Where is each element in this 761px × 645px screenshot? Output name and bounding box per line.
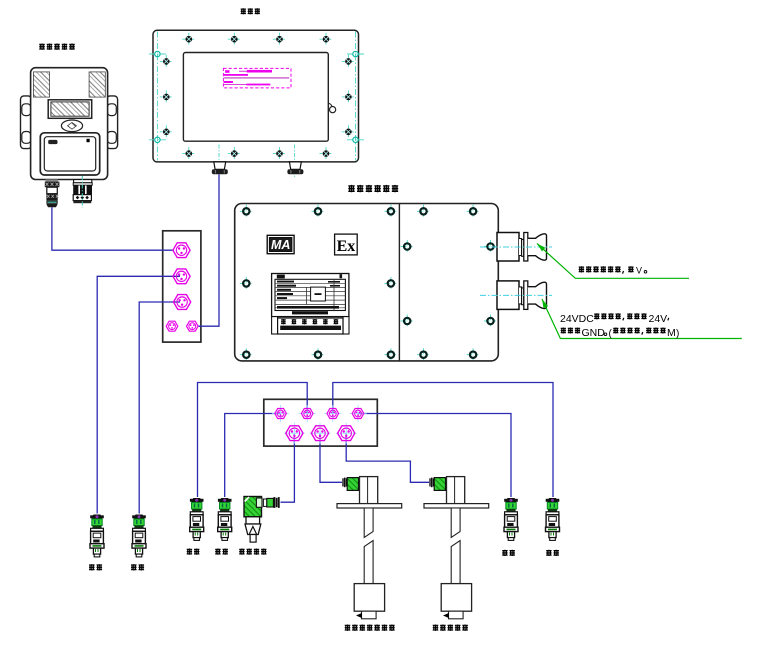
wire junction box bottom port b2 to 废气处理箱水位 sensor xyxy=(320,433,342,482)
label 转速 xyxy=(131,564,144,570)
wire methane sensor to junction box left port 1 xyxy=(52,207,174,250)
host bolts xyxy=(240,205,497,361)
hatched corner patch right xyxy=(89,72,105,97)
wire junction box bottom port b1 to 机油压力 sensor xyxy=(281,433,295,502)
sensor 水温 (water temperature) xyxy=(504,498,518,540)
junction box bottom port t3 xyxy=(324,405,341,422)
display bolts xyxy=(160,33,355,160)
annotation text 停机输出信号，接V。 xyxy=(579,266,647,276)
label 柴油箱油位 xyxy=(433,624,468,630)
label 采集装置主机 xyxy=(348,185,398,192)
wire junction box bottom port t1 to 表温 sensor xyxy=(225,414,281,498)
host name plate xyxy=(272,274,349,317)
label 显示屏 xyxy=(241,8,260,14)
label 水温 xyxy=(502,550,515,556)
sensor 转速 (engine speed) xyxy=(132,515,146,557)
methane sensor cable gland xyxy=(45,179,60,207)
wire junction box bottom port t2 to 排温 sensor xyxy=(198,383,308,498)
svg-text:M: M xyxy=(667,327,676,339)
junction box bottom port b2 xyxy=(310,423,331,444)
host power connector (bottom right) xyxy=(480,281,552,310)
junction box left port 5 xyxy=(187,321,199,331)
svg-text:): ) xyxy=(676,328,679,339)
annotation leader 2 (24VDC power) xyxy=(542,299,742,339)
sensor 油温 (oil temperature) xyxy=(546,498,560,540)
svg-text:MA: MA xyxy=(271,238,290,252)
host unit 采集装置主机 enclosure xyxy=(235,204,499,361)
svg-text:24VDC: 24VDC xyxy=(560,313,594,325)
label 表温 xyxy=(215,548,228,554)
label 车速 xyxy=(89,564,102,570)
display bottom connector left xyxy=(212,145,228,178)
sensor 表温 (surface temperature) xyxy=(218,498,232,540)
label 废气处理箱水位 xyxy=(345,624,395,630)
junction box bottom port t1 xyxy=(272,405,289,422)
junction box bottom port b1 xyxy=(284,423,305,444)
junction box bottom port b3 xyxy=(336,423,357,444)
junction box left (vertical) xyxy=(163,231,201,342)
level sensor 柴油箱油位 xyxy=(424,477,489,619)
host label strip xyxy=(272,317,349,334)
label 油温 xyxy=(546,550,559,556)
wire display to junction box left port 5 xyxy=(198,174,219,326)
label 机油压力 xyxy=(239,548,266,554)
junction box left port 4 xyxy=(166,321,178,331)
annotation text 蓝线接GND。(电启动时，白线接M) xyxy=(561,327,680,339)
junction box left port 2 xyxy=(173,269,190,284)
wire junction box left port 2 to 车速 sensor xyxy=(97,276,180,513)
junction box left port 1 xyxy=(173,243,190,258)
wire junction box bottom port t3 to 油温 sensor xyxy=(333,383,553,498)
display centerlines xyxy=(149,32,364,161)
junction box left port 3 xyxy=(174,295,191,310)
sensor 排温 (exhaust temperature) xyxy=(190,498,204,540)
junction box bottom port t2 xyxy=(299,405,316,422)
svg-text:Ex: Ex xyxy=(337,238,356,255)
label 甲烷传感器 xyxy=(39,43,75,49)
wire junction box bottom port t4 to 水温 sensor xyxy=(358,414,511,498)
methane sensor 甲烷传感器 body xyxy=(21,68,118,180)
annotation leader 1 (stop signal) xyxy=(537,244,689,279)
hatched corner patch left xyxy=(33,72,49,97)
host MA logo xyxy=(267,235,294,253)
oval logo xyxy=(61,120,82,132)
svg-text:GND: GND xyxy=(582,327,606,339)
junction box bottom port t4 xyxy=(349,405,366,422)
level sensor 废气处理箱水位 xyxy=(337,477,402,619)
right mounting ear xyxy=(107,96,118,149)
sensor window xyxy=(48,100,91,119)
sensor 机油压力 (oil pressure) xyxy=(244,497,280,543)
display latch xyxy=(328,103,335,113)
display unit 显示屏 enclosure xyxy=(153,30,359,162)
svg-text:24V: 24V xyxy=(649,313,668,325)
front screen xyxy=(40,133,99,175)
wire junction box bottom port b3 to 柴油箱油位 sensor xyxy=(346,433,429,482)
display corner holes xyxy=(155,51,358,142)
wire junction box left port 3 to 转速 sensor xyxy=(139,302,180,514)
host Ex mark xyxy=(335,234,358,255)
junction box bottom (horizontal) xyxy=(264,399,378,446)
display bottom connector right xyxy=(287,145,303,178)
sensor 车速 (vehicle speed) xyxy=(90,515,104,557)
annotation text 24VDC电源入口，红线接24V， xyxy=(560,313,669,325)
main enclosure xyxy=(31,68,108,180)
host signal connector (top right) xyxy=(480,233,552,262)
svg-text:V: V xyxy=(636,266,642,276)
left mounting ear xyxy=(21,96,32,149)
methane sensor output connector xyxy=(73,176,92,208)
label 排温 xyxy=(187,548,200,554)
display screen content (magenta) xyxy=(223,68,291,88)
